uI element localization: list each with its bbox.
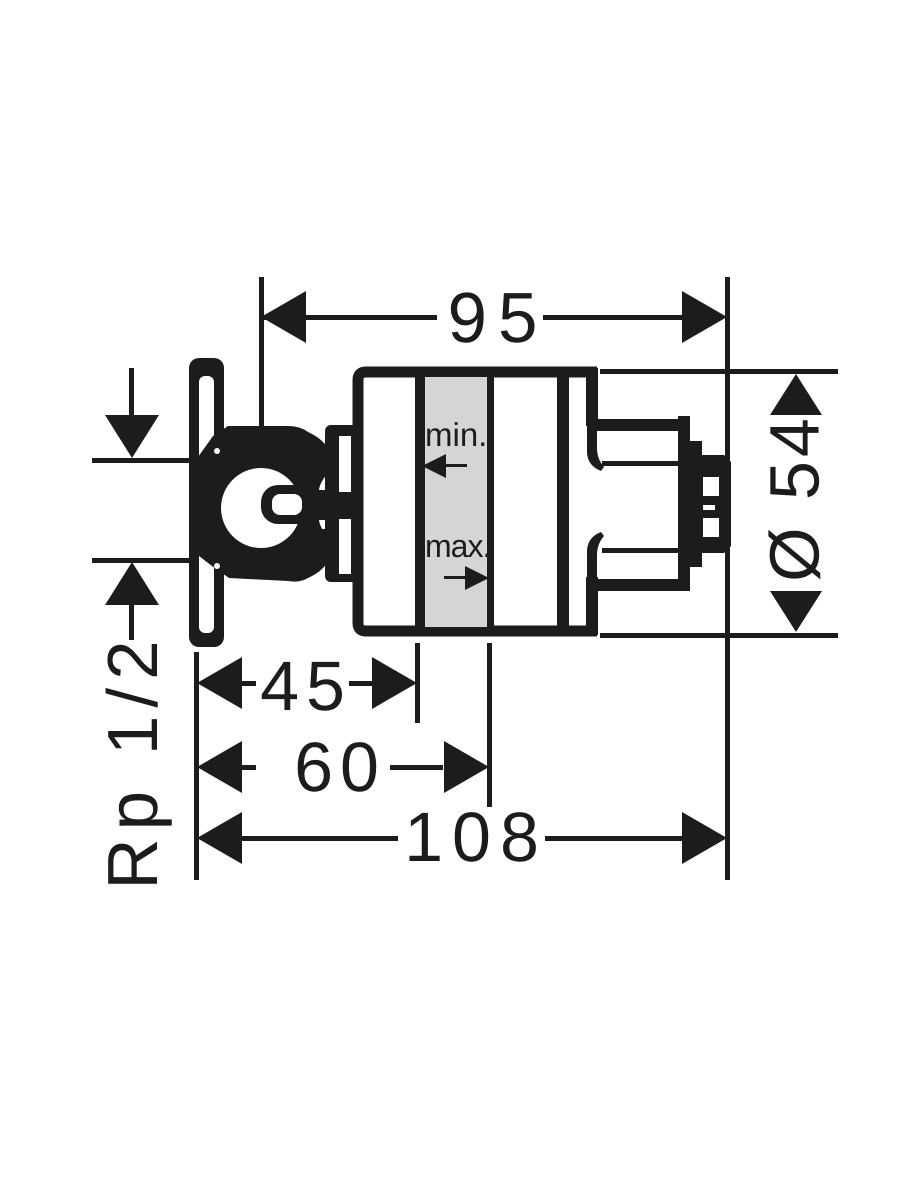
spindle neck connector <box>310 490 340 520</box>
dimension 95 line left <box>261 315 437 320</box>
svg-text:min.: min. <box>425 416 487 453</box>
dimension Rp 1/2 arrow up <box>105 562 159 605</box>
svg-text:Ø 54: Ø 54 <box>755 414 833 582</box>
dimension 108 tail right <box>545 836 682 841</box>
extension line left of 95 <box>259 277 264 427</box>
dimension 60 tail right <box>390 765 443 770</box>
screw hole dot lower <box>214 563 220 569</box>
dimension 45 tail left <box>242 681 256 686</box>
svg-text:Rp 1/2: Rp 1/2 <box>94 632 173 889</box>
dimension 45 arrow right <box>372 657 417 709</box>
max arrow <box>444 566 489 590</box>
spindle slot line <box>703 505 715 510</box>
dimension 45 tail right <box>349 681 372 686</box>
dimension 108 tail left <box>242 836 398 841</box>
svg-text:45: 45 <box>260 647 352 725</box>
grey scale band <box>425 377 487 627</box>
stop ring top inner line <box>602 461 681 466</box>
dimension 95 line right <box>543 315 682 320</box>
dimension O54 arrow down <box>770 591 822 632</box>
pipe line upper (Rp 1/2 upper extension) <box>92 458 198 463</box>
spindle C shape <box>261 485 319 524</box>
stop ring bottom inner line <box>602 548 681 553</box>
right border upper segment with hook <box>587 420 604 471</box>
divider 2 <box>487 368 494 636</box>
svg-text:95: 95 <box>448 279 549 358</box>
divider 1 <box>415 368 425 636</box>
bridge lower <box>305 528 342 550</box>
valve body blob <box>198 426 342 582</box>
dimension 95 arrow left <box>261 291 306 343</box>
outer outline (left, top, bottom walls) <box>358 372 597 631</box>
spindle step bottom <box>690 553 702 567</box>
spindle hole lower <box>703 518 719 537</box>
pipe line lower (Rp 1/2 lower extension) <box>92 558 198 563</box>
stop ring right bar <box>678 416 690 591</box>
extension line right (95/108) <box>725 277 730 880</box>
svg-text:60: 60 <box>294 728 386 806</box>
dimension 108 arrow left <box>197 812 242 864</box>
extension line left bottom (45/60/108) <box>194 652 199 880</box>
valve bore circle <box>221 468 301 548</box>
svg-text:108: 108 <box>404 798 548 876</box>
dimension O54 arrow up <box>770 374 822 415</box>
dimension Rp 1/2 arrow down <box>105 415 159 458</box>
spindle hole upper <box>703 477 719 496</box>
dimension 60 arrow right <box>444 741 489 793</box>
extension line 60 <box>487 643 492 807</box>
screw hole dot upper <box>214 448 220 454</box>
svg-text:max.: max. <box>425 528 490 564</box>
dimension 108 arrow right <box>682 812 727 864</box>
bridge upper <box>305 452 342 474</box>
dimension 45 arrow left <box>197 657 242 709</box>
main housing body <box>358 368 604 636</box>
stop ring top arm <box>592 419 686 431</box>
extension line bottom (O54) <box>600 633 838 638</box>
spindle block <box>690 455 731 553</box>
right border lower segment with hook <box>587 532 604 583</box>
dimension 95 arrow right <box>682 291 727 343</box>
dimension 60 arrow left <box>197 741 242 793</box>
extension line top (O54) <box>600 369 838 374</box>
stop ring bottom arm <box>592 579 686 591</box>
spindle step top <box>690 441 702 455</box>
extension line 45 <box>415 643 420 723</box>
inner wall <box>557 368 569 636</box>
mounting bracket (E-shape) <box>325 425 358 582</box>
dimension 60 tail left <box>242 765 256 770</box>
dimension Rp 1/2 line lower segment <box>129 602 134 640</box>
wall flange plate <box>189 358 224 647</box>
dimension Rp 1/2 line upper segment <box>129 368 134 418</box>
min arrow <box>422 454 467 478</box>
